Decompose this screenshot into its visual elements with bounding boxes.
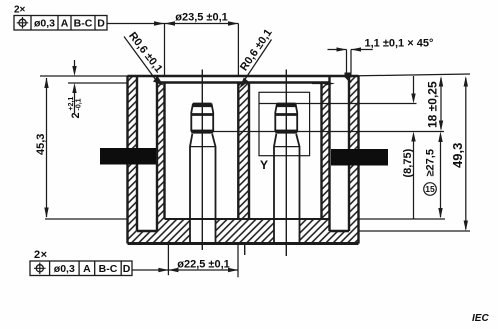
svg-text:D: D bbox=[97, 18, 105, 30]
svg-text:15: 15 bbox=[425, 184, 435, 194]
svg-text:1,1 ±0,1 × 45°: 1,1 ±0,1 × 45° bbox=[365, 38, 434, 50]
svg-text:A: A bbox=[61, 18, 69, 30]
svg-text:49,3: 49,3 bbox=[450, 143, 465, 168]
svg-text:ø23,5 ±0,1: ø23,5 ±0,1 bbox=[175, 12, 228, 24]
svg-text:ø0,3: ø0,3 bbox=[54, 263, 75, 275]
svg-text:IEC: IEC bbox=[472, 313, 489, 324]
svg-text:B-C: B-C bbox=[74, 18, 93, 30]
svg-text:18 ±0,25: 18 ±0,25 bbox=[426, 81, 440, 128]
svg-text:-0,1: -0,1 bbox=[76, 98, 83, 110]
svg-text:B-C: B-C bbox=[99, 263, 118, 275]
svg-text:ø0,3: ø0,3 bbox=[34, 18, 55, 30]
svg-text:(8,75): (8,75) bbox=[402, 148, 414, 177]
svg-text:2: 2 bbox=[70, 112, 82, 118]
svg-text:A: A bbox=[83, 263, 91, 275]
svg-text:45,3: 45,3 bbox=[35, 134, 47, 155]
svg-text:+2,1: +2,1 bbox=[68, 97, 75, 111]
svg-text:ø22,5 ±0,1: ø22,5 ±0,1 bbox=[177, 259, 230, 271]
svg-text:Y: Y bbox=[260, 158, 268, 172]
svg-text:2×: 2× bbox=[14, 5, 26, 16]
svg-text:≥27,5: ≥27,5 bbox=[425, 149, 437, 176]
svg-text:2×: 2× bbox=[34, 249, 48, 261]
svg-text:D: D bbox=[123, 263, 131, 275]
